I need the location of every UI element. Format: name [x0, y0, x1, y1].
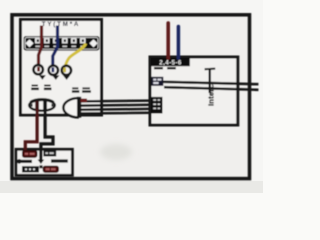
oval mic connector: [29, 99, 55, 110]
long line 1 to right edge: [163, 82, 258, 84]
faint smudge watermark: [100, 144, 132, 160]
dash label B: [167, 67, 176, 69]
tiny label 4: [82, 87, 91, 92]
harness line 2: [80, 104, 152, 107]
black module PTT: [43, 150, 56, 157]
label strip 2,4,5,6: [151, 58, 190, 66]
plug ring 1: [34, 65, 43, 74]
red wire top right: [166, 23, 170, 58]
black wire from oval to bottom box: [41, 109, 53, 161]
right intercom box: [150, 57, 238, 125]
plug pin tip 3: [63, 75, 70, 80]
Interc top tick: [205, 68, 216, 71]
left contact bar: [16, 159, 32, 164]
junction dot: [39, 165, 42, 168]
right box connector block: [151, 97, 163, 114]
left unit box: [21, 20, 102, 116]
red module 1: [23, 151, 37, 158]
red sleeve on harness line 1: [81, 99, 87, 103]
Interc stem wire: [208, 68, 210, 93]
svg-text:2,4-5-6: 2,4-5-6: [159, 60, 182, 67]
long line 2 to right edge: [164, 87, 258, 90]
D connector flat side: [77, 97, 81, 118]
D connector shell: [63, 98, 78, 117]
plug ring 2: [49, 66, 58, 75]
plug ring 3: [62, 66, 71, 75]
blue wire tip in ring 2: [52, 67, 55, 72]
black wire end in oval: [43, 101, 47, 111]
arrowhead on black wire: [38, 160, 45, 165]
OH block: [152, 77, 164, 86]
red wire from oval to bottom box: [25, 109, 37, 152]
tiny label 2: [44, 85, 52, 91]
svg-text:Interc: Interc: [206, 84, 215, 106]
red wire end in oval: [35, 101, 39, 110]
wire red lower: [39, 26, 42, 69]
red wire tip in ring 1: [37, 67, 40, 72]
tiny label 3: [72, 87, 79, 92]
svg-text:TY(TM*A: TY(TM*A: [42, 21, 80, 28]
red module 2: [43, 166, 58, 172]
plug pin tip 2: [52, 75, 59, 80]
bottom-left box: [16, 149, 72, 175]
outer frame: [12, 15, 250, 179]
harness line 4: [80, 111, 152, 114]
blue wire top right: [177, 27, 181, 59]
harness line 3: [80, 108, 152, 111]
right contact bar: [51, 159, 68, 162]
dash label A: [154, 67, 163, 69]
wire blue lower: [53, 26, 58, 73]
terminal strip TB1: [24, 36, 100, 51]
plug pin tip 1: [39, 75, 46, 80]
harness line 1: [80, 99, 152, 102]
battery block: [22, 166, 39, 172]
tiny label 1: [31, 85, 39, 91]
wire yellow: [65, 44, 86, 73]
yellow wire tip in ring 3: [63, 68, 66, 73]
